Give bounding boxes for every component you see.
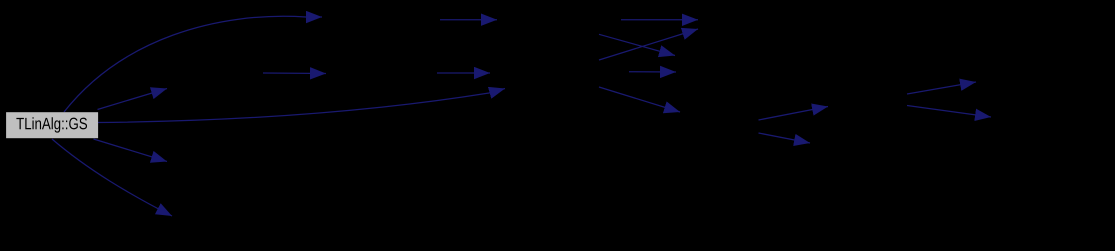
edge D3 to node E2 (down-right) xyxy=(759,133,811,143)
edge E1 to node F2 (down-right) xyxy=(907,106,991,118)
edge GS to node B4 xyxy=(94,139,168,162)
edge GS to node B2 xyxy=(98,89,168,110)
edge C2 to node C2b xyxy=(437,72,490,74)
edge GS to node C3 (long flat curve) xyxy=(98,89,506,123)
edge C1b to node D2 (down-right) xyxy=(599,34,675,55)
edge C1 to node D1 xyxy=(621,19,698,21)
edge C2b to node D2 xyxy=(629,71,676,73)
edge C2c to node D1 (up-right) xyxy=(599,29,698,60)
edge GS to node B5 (lower curve) xyxy=(52,139,172,216)
edge D3 to node E1 (up-right) xyxy=(759,107,829,121)
node TLinAlg::GS xyxy=(6,112,98,138)
edge GS to node B1 (curved top) xyxy=(64,16,322,112)
edge E1 to node F1 (up-right) xyxy=(907,82,976,94)
edge C3 to node D3 (down-right) xyxy=(599,87,680,112)
edge B2 to node C2 xyxy=(263,72,326,75)
edge B1 to node C1 xyxy=(440,19,497,21)
